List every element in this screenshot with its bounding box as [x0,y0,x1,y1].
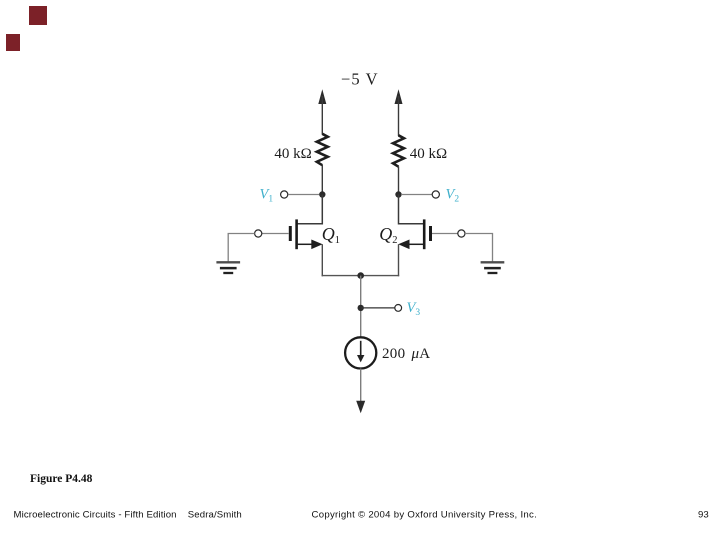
node dot common sources [357,272,364,279]
wire: left node to Q1 drain [298,195,323,224]
wire: common node down to current source [360,276,362,338]
node dot right drain [395,191,401,197]
current source I 200uA circle [345,337,376,368]
svg-text:V3: V3 [407,300,421,318]
wire: current source to bottom arrow [360,369,362,403]
wire: left gate to ground [228,234,254,262]
wire: V3 lead [361,307,395,309]
node dot V3 [358,305,364,311]
supply arrow right [395,89,403,104]
terminal circle right gate [458,230,465,237]
bottom arrow [356,401,365,414]
svg-text:V2: V2 [446,187,460,205]
terminal circle V3 [395,305,402,312]
svg-text:Microelectronic Circuits - Fif: Microelectronic Circuits - Fifth Edition… [14,510,242,521]
wire: right rail resistor to node [398,167,400,195]
corner logo square lower [6,34,20,51]
terminal circle V2 [432,191,439,198]
svg-text:40 kΩ: 40 kΩ [274,146,311,162]
node dot left drain [319,191,325,197]
supply arrow left [318,89,326,104]
terminal circle V1 [281,191,288,198]
terminal circle left gate [255,230,262,237]
wire: Q1 gate lead [262,233,289,235]
wire: Q1 source lead [298,243,313,245]
wire: V1 lead [288,194,319,196]
wire: V2 lead [402,194,432,196]
wire: left rail resistor to node [321,165,323,195]
wire: right node to Q2 drain [399,195,424,224]
svg-text:Q1: Q1 [322,224,340,246]
svg-text:−5 V: −5 V [341,70,379,89]
corner logo square upper [29,6,47,25]
wire: Q2 gate lead [432,233,458,235]
wire: left supply rail [321,96,323,135]
transistor Q1 channel bar [295,219,298,249]
wire: Q2 source lead [408,243,423,245]
svg-text:200 μA: 200 μA [382,346,430,362]
wire: right supply rail [398,96,400,136]
transistor Q1 gate bar [289,226,292,241]
svg-text:V1: V1 [260,187,274,205]
wire: right gate to ground [465,234,493,262]
ground right [481,262,505,273]
wire: Q1 source down [321,244,323,276]
svg-text:40 kΩ: 40 kΩ [410,146,447,162]
transistor Q1 source arrow [311,240,322,250]
resistor R2 40 kOhm [393,135,404,166]
svg-text:Figure P4.48: Figure P4.48 [30,473,93,485]
svg-text:Q2: Q2 [379,224,397,246]
svg-text:Copyright © 2004 by Oxford Uni: Copyright © 2004 by Oxford University Pr… [312,510,538,521]
transistor Q2 gate bar [429,226,432,241]
resistor R1 40 kOhm [317,134,328,165]
wire: Q2 source down [398,244,400,276]
wire: common source bus [322,275,400,277]
svg-text:93: 93 [698,510,709,521]
current source arrow [357,341,364,363]
ground left [216,262,240,273]
transistor Q2 channel bar [423,219,426,249]
transistor Q2 source arrow [398,240,409,250]
